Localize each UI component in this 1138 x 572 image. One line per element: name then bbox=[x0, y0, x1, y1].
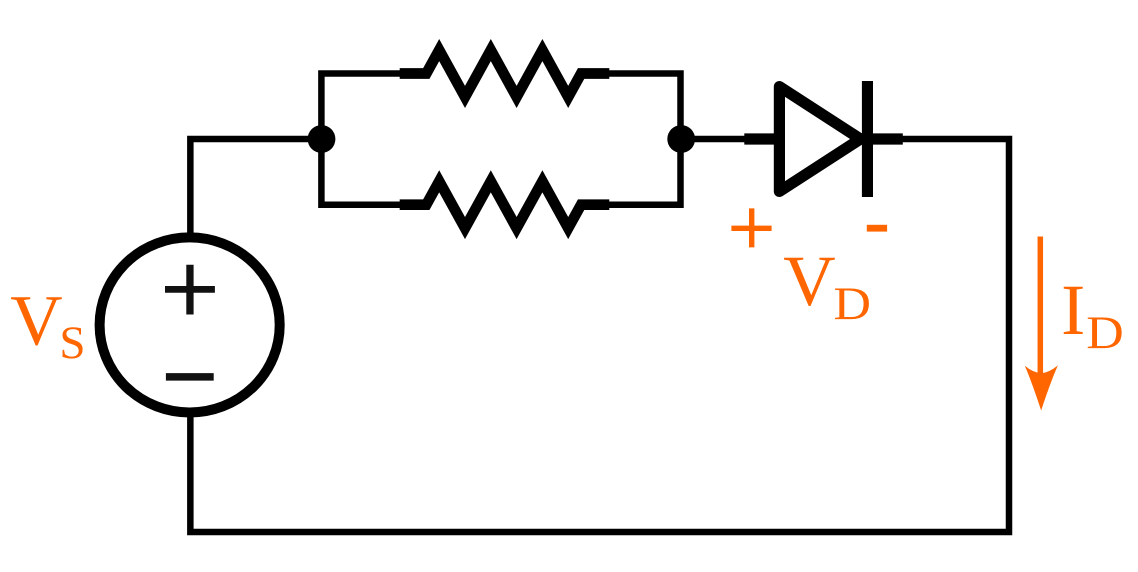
svg-text:V: V bbox=[783, 240, 835, 321]
wire: node B to diode anode bbox=[681, 136, 751, 143]
resistor R2 (bottom) bbox=[400, 181, 610, 228]
label minus (diode cathode polarity) bbox=[867, 225, 887, 232]
wire: source top up and right to node A bbox=[190, 139, 321, 235]
current arrow ID shaft bbox=[1038, 237, 1044, 375]
resistor R1 (top) bbox=[400, 50, 610, 97]
diode D1 anode lead bbox=[744, 133, 780, 144]
svg-text:D: D bbox=[834, 278, 872, 330]
svg-text:V: V bbox=[10, 280, 62, 361]
voltage source VS circle bbox=[100, 237, 280, 412]
svg-text:S: S bbox=[59, 317, 85, 369]
wire: diode cathode right, down, along bottom, up to source bottom bbox=[190, 139, 1009, 532]
node B (right junction dot) bbox=[667, 125, 695, 153]
voltage source minus sign bbox=[166, 373, 214, 381]
diode D1 cathode bar bbox=[862, 81, 873, 197]
label plus (diode anode polarity) bbox=[731, 208, 771, 247]
current arrow ID head bbox=[1025, 365, 1058, 410]
svg-text:I: I bbox=[1061, 269, 1085, 350]
wire: right rails of parallel resistor box bbox=[598, 74, 681, 205]
diode D1 triangle bbox=[779, 87, 860, 192]
voltage source plus sign bbox=[186, 265, 193, 315]
svg-text:D: D bbox=[1086, 307, 1124, 359]
diode D1 cathode lead bbox=[867, 133, 902, 144]
node A (left junction dot) bbox=[308, 125, 336, 153]
wire: left rails of parallel resistor box bbox=[321, 74, 412, 205]
